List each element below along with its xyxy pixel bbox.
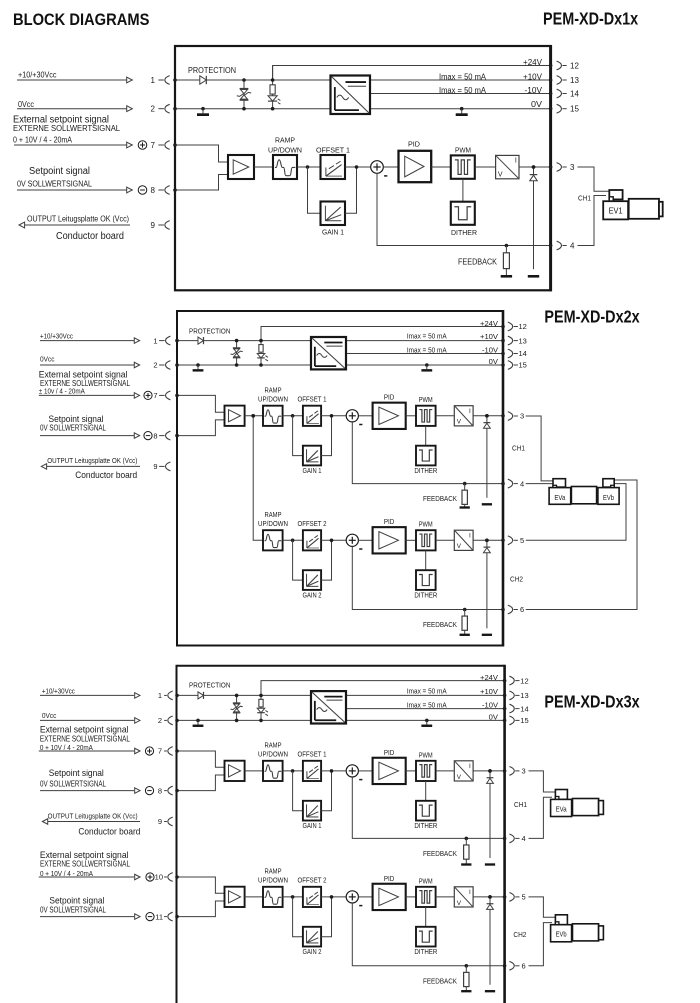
label +10V [480, 332, 498, 341]
offset block OFFSET 2 [303, 887, 321, 907]
label GAIN 1 [303, 468, 322, 475]
label CH1 [512, 444, 525, 453]
ground at 0Vcc rail [197, 107, 209, 115]
label OFFSET 1 [316, 145, 350, 154]
terminal 2 [153, 361, 170, 370]
label -10V [482, 345, 498, 354]
svg-text:3: 3 [522, 767, 526, 776]
svg-text:GAIN 2: GAIN 2 [303, 949, 322, 956]
wire setpoint+ routing [175, 394, 224, 413]
svg-text:OFFSET 1: OFFSET 1 [298, 752, 327, 759]
feedback resistor 1 [461, 837, 471, 865]
wire gain bypass down 2 [293, 897, 303, 937]
terminal 3 [508, 412, 524, 421]
label RAMP UP/DOWN 2 [258, 869, 288, 885]
terminal 9 [158, 817, 173, 826]
label OFFSET 1 [298, 397, 327, 404]
DC/DC converter U1 [311, 337, 346, 369]
svg-text:GAIN 2: GAIN 2 [303, 593, 322, 600]
svg-text:I: I [469, 889, 471, 896]
terminal 14 [509, 704, 528, 713]
protection diode D1 [200, 76, 207, 84]
svg-text:9: 9 [151, 221, 156, 230]
svg-text:DITHER: DITHER [414, 593, 437, 600]
ramp generator 2 [263, 887, 283, 907]
wire -10V rail [370, 92, 552, 96]
label OUTPUT Leitugsplatte OK (Vcc) [48, 812, 138, 821]
wire EVb pin lower [526, 484, 626, 541]
svg-text:OUTPUT Leitugsplatte OK (Vcc): OUTPUT Leitugsplatte OK (Vcc) [48, 812, 138, 821]
terminal 1 [158, 691, 173, 700]
ramp generator 1 [263, 761, 283, 781]
wire PWM to dither 2 [425, 550, 427, 570]
label CH2 [513, 930, 526, 939]
svg-text:1: 1 [158, 691, 162, 700]
ramp generator 1 [263, 406, 283, 426]
summing junction 2 [346, 534, 362, 549]
label Imax +10V [407, 332, 447, 341]
wire ramp to offset 2 [283, 539, 303, 543]
wire Vcc rail line1 [175, 339, 505, 343]
svg-text:UP/DOWN: UP/DOWN [268, 145, 302, 154]
ground at 0Vcc rail [193, 363, 204, 370]
svg-text:RAMP: RAMP [265, 512, 282, 519]
wire +10/+30Vcc with arrow [40, 693, 140, 699]
terminal 7 plus [144, 391, 171, 400]
svg-text:UP/DOWN: UP/DOWN [258, 397, 288, 404]
svg-text:PID: PID [384, 395, 395, 402]
svg-text:0Vcc: 0Vcc [18, 100, 34, 109]
terminal 15 [557, 104, 580, 113]
label PWM 1 [419, 397, 433, 404]
label FEEDBACK 1 [423, 494, 457, 503]
svg-text:6: 6 [522, 962, 526, 971]
svg-text:0V: 0V [489, 357, 499, 366]
wire setpoint- with arrow [17, 187, 132, 193]
label PID 2 [384, 519, 395, 526]
wire setpoint+ routing [173, 143, 228, 162]
wire -10V rail [346, 352, 505, 356]
svg-text:RAMP: RAMP [265, 388, 282, 395]
label 0 + 10V / 4 - 20mA [13, 136, 73, 145]
wire CH1 bracket lower [578, 196, 607, 246]
PWM stage 2 [416, 887, 436, 907]
svg-text:4: 4 [522, 834, 526, 843]
svg-text:EVa: EVa [556, 806, 567, 813]
dither oscillator 1 [416, 446, 436, 466]
wire PID to PWM 1 [406, 415, 416, 417]
valve center block [571, 487, 596, 504]
terminal 9 [153, 462, 170, 471]
net 0Vcc input label [18, 100, 34, 109]
title PEM-XD-Dx3x [544, 691, 639, 711]
feedback resistor 2 [460, 608, 470, 635]
label 0V [531, 100, 543, 109]
svg-text:14: 14 [519, 349, 527, 358]
label setpoint signal ch2 [49, 894, 104, 905]
PID controller 1 [373, 403, 406, 429]
summing junction S1 [371, 161, 388, 176]
terminal 5 [508, 536, 524, 545]
wire CH2 bracket lower [529, 923, 553, 966]
terminal 8 minus [144, 431, 171, 440]
terminal 3 [557, 163, 575, 172]
feedback resistor R1 [501, 244, 512, 277]
svg-text:PID: PID [384, 876, 395, 883]
svg-text:PWM: PWM [419, 878, 433, 885]
label +/- 10v / 4 - 20mA [39, 387, 85, 396]
wire setpoint- routing [175, 901, 224, 918]
svg-text:UP/DOWN: UP/DOWN [258, 752, 288, 759]
svg-text:8: 8 [158, 786, 162, 795]
wire -10V rail [346, 707, 506, 711]
ramp generator 2 [263, 530, 283, 550]
wire gain bypass up [345, 167, 357, 213]
svg-text:BLOCK DIAGRAMS: BLOCK DIAGRAMS [13, 11, 150, 29]
label +24V [480, 319, 498, 328]
label 0V sollwertsignal [17, 179, 92, 189]
svg-text:13: 13 [519, 336, 527, 345]
solenoid valve EVa [551, 790, 604, 817]
terminal 4 [508, 479, 524, 488]
wire offset to summer 1 [321, 769, 346, 773]
TVS suppressor Z1 [237, 78, 251, 110]
svg-text:EVb: EVb [603, 495, 614, 502]
terminal 13 [509, 691, 528, 700]
wire PID to PWM 1 [406, 770, 416, 772]
wire gain bypass down 1 [293, 771, 303, 811]
wire amp to ramp [245, 414, 263, 418]
offset block OFFSET 1 [303, 406, 321, 426]
label external setpoint signal ch1 [40, 724, 129, 735]
label OFFSET 1 [298, 752, 327, 759]
input amplifier A2 [225, 887, 245, 907]
wire setpoint- ch1 with arrow [40, 788, 140, 794]
wire +10/+30Vcc with arrow [40, 338, 140, 344]
svg-text:GAIN 1: GAIN 1 [303, 468, 322, 475]
label PID 1 [384, 395, 395, 402]
wire setpoint- routing [175, 420, 224, 438]
label Imax +10V [407, 686, 447, 695]
wire offset to summer 2 [321, 539, 346, 543]
wire summer to PID 1 [358, 770, 372, 772]
wire 0V rail line2 [175, 363, 505, 367]
DC/DC converter U1 [331, 76, 371, 115]
terminal 12 [557, 61, 580, 70]
label external setpoint signal [13, 114, 109, 125]
svg-text:+10V: +10V [523, 72, 543, 81]
wire V/I to output terminal 2 [473, 539, 505, 543]
label setpoint signal [49, 413, 104, 424]
label externe sollwertsignal [13, 123, 120, 133]
svg-text:0V SOLLWERTSIGNAL: 0V SOLLWERTSIGNAL [40, 780, 107, 789]
svg-text:Imax = 50 mA: Imax = 50 mA [439, 86, 487, 95]
label conductor board [78, 826, 140, 837]
wire gain bypass up 1 [321, 771, 331, 811]
label FEEDBACK 1 [423, 849, 457, 858]
label Imax -10V [407, 700, 447, 709]
V/I output stage 2 [454, 530, 473, 550]
label GAIN 1 [303, 823, 322, 830]
wire PWM to V/I 1 [436, 415, 455, 417]
svg-text:1: 1 [151, 76, 156, 85]
svg-text:I: I [469, 408, 471, 415]
flyback diode VD1 [528, 165, 539, 276]
label OFFSET 2 [298, 878, 327, 885]
wire ramp to offset 2 [283, 895, 303, 899]
svg-text:EXTERNE SOLLWERTSIGNAL: EXTERNE SOLLWERTSIGNAL [40, 859, 131, 868]
wire 0Vcc with arrow [17, 106, 132, 112]
wire V/I to output terminal 1 [473, 414, 505, 418]
svg-text:I: I [469, 532, 471, 539]
wire feedback return 1 [352, 422, 505, 486]
summing junction 1 [346, 765, 362, 780]
label external setpoint signal ch2 [40, 849, 129, 860]
svg-text:0V: 0V [489, 713, 499, 722]
block PEM-XD-Dx1x enclosure [175, 45, 551, 291]
ground at 0V rail [421, 363, 432, 370]
svg-text:Setpoint signal: Setpoint signal [49, 894, 104, 905]
svg-text:OFFSET 2: OFFSET 2 [298, 521, 327, 528]
terminal 9 [151, 221, 170, 230]
svg-text:Imax = 50 mA: Imax = 50 mA [407, 332, 447, 341]
svg-text:OFFSET 2: OFFSET 2 [298, 878, 327, 885]
wire CH2 bracket upper [529, 897, 556, 917]
terminal 15 [508, 361, 527, 370]
label DITHER 2 [414, 949, 437, 956]
label conductor board [56, 231, 124, 242]
net +10/+30Vcc input label [42, 686, 75, 695]
svg-text:OFFSET 1: OFFSET 1 [316, 145, 350, 154]
TVS suppressor Z1 [230, 339, 242, 367]
summing junction 2 [346, 891, 362, 906]
svg-text:EV1: EV1 [609, 206, 623, 215]
V/I output stage 1 [454, 406, 473, 426]
wire PWM to dither 1 [425, 426, 427, 446]
terminal 14 [508, 349, 527, 358]
svg-text:3: 3 [570, 163, 575, 172]
block PEM-XD-Dx2x enclosure [177, 310, 503, 647]
svg-text:FEEDBACK: FEEDBACK [423, 976, 457, 985]
label RAMP UP/DOWN 2 [258, 512, 288, 528]
page header BLOCK DIAGRAMS [13, 11, 150, 29]
svg-text:-10V: -10V [525, 86, 543, 95]
svg-text:Setpoint signal: Setpoint signal [29, 166, 90, 177]
terminal 12 [509, 676, 528, 685]
label CH2 [510, 574, 523, 583]
svg-text:0V SOLLWERTSIGNAL: 0V SOLLWERTSIGNAL [17, 179, 92, 189]
net +10/+30Vcc input label [40, 332, 73, 341]
svg-text:PWM: PWM [419, 522, 433, 529]
wire gain bypass up 2 [321, 540, 331, 580]
label OUTPUT Leitugsplatte OK (Vcc) [27, 214, 129, 224]
svg-text:Setpoint signal: Setpoint signal [49, 413, 104, 424]
wire ramp to offset 1 [283, 414, 303, 418]
label FEEDBACK 2 [423, 620, 457, 629]
offset block OFFSET 1 [321, 155, 346, 179]
flyback diode 1 [485, 769, 495, 864]
wire offset to summer 1 [321, 414, 346, 418]
svg-text:6: 6 [520, 605, 524, 614]
svg-text:GAIN 1: GAIN 1 [303, 823, 322, 830]
wire EVb pin upper [526, 480, 637, 610]
wire summer to PID 1 [358, 415, 372, 417]
svg-text:PWM: PWM [419, 397, 433, 404]
wire 0V rail line2 [175, 719, 506, 723]
svg-text:12: 12 [520, 676, 528, 685]
svg-text:CH1: CH1 [512, 444, 525, 453]
wire gain bypass up 1 [321, 416, 331, 456]
wire PID to PWM 2 [406, 896, 416, 898]
label Imax +10V [439, 72, 487, 81]
svg-text:RAMP: RAMP [265, 743, 282, 750]
wire feedback return 1 [352, 777, 506, 840]
wire PWM to dither 2 [425, 907, 427, 927]
label RAMP UP/DOWN [268, 136, 302, 155]
svg-text:DITHER: DITHER [414, 823, 437, 830]
wire feedback return 2 [352, 546, 505, 611]
label PID 1 [384, 750, 395, 757]
wire CH1 bracket [526, 416, 553, 481]
wire PWM to V/I 2 [436, 896, 455, 898]
V/I output stage 2 [454, 887, 473, 907]
svg-text:CH1: CH1 [578, 193, 591, 202]
wire setpoint+ with arrow [39, 393, 140, 399]
label PROTECTION [189, 326, 230, 335]
wire setpoint+ routing [175, 749, 224, 767]
terminal 12 [508, 322, 527, 331]
wire setpoint+ ch1 with arrow [39, 748, 140, 754]
svg-text:15: 15 [519, 361, 527, 370]
label RAMP UP/DOWN 1 [258, 388, 288, 404]
label RAMP UP/DOWN 1 [258, 743, 288, 759]
wire setpoint+ routing [175, 875, 224, 893]
PWM stage 1 [416, 406, 436, 426]
label 0 + 10V / 4 - 20mA ch1 [40, 743, 93, 752]
label conductor board [75, 469, 137, 480]
wire +10/+30Vcc with arrow [17, 77, 132, 83]
svg-text:10: 10 [155, 873, 163, 882]
svg-text:OUTPUT Leitugsplatte OK (Vcc): OUTPUT Leitugsplatte OK (Vcc) [27, 214, 129, 224]
svg-text:4: 4 [520, 479, 524, 488]
svg-text:7: 7 [153, 391, 157, 400]
svg-text:0 + 10V / 4 - 20mA: 0 + 10V / 4 - 20mA [13, 136, 73, 145]
svg-text:External setpoint signal: External setpoint signal [39, 368, 128, 379]
wire CH1 bracket upper [529, 771, 556, 792]
svg-text:FEEDBACK: FEEDBACK [423, 620, 457, 629]
svg-text:8: 8 [151, 186, 156, 195]
svg-text:I: I [469, 763, 471, 770]
svg-text:FEEDBACK: FEEDBACK [458, 257, 498, 266]
label PWM 2 [419, 522, 433, 529]
wire setpoint+ with arrow [14, 142, 132, 148]
svg-text:+24V: +24V [480, 319, 498, 328]
svg-text:+24V: +24V [480, 673, 498, 682]
svg-text:CH2: CH2 [510, 574, 523, 583]
label DITHER 1 [414, 823, 437, 830]
wire amp to ramp [245, 896, 263, 898]
svg-text:V: V [457, 774, 462, 781]
svg-text:11: 11 [155, 912, 163, 921]
wire gain bypass down 2 [293, 540, 303, 580]
ground at 0V rail [456, 107, 468, 115]
wire amp to ramp [254, 166, 273, 168]
svg-text:PEM-XD-Dx2x: PEM-XD-Dx2x [544, 307, 639, 327]
svg-text:Conductor board: Conductor board [78, 826, 140, 837]
svg-text:External setpoint signal: External setpoint signal [40, 849, 129, 860]
TVS suppressor Z1 [230, 694, 242, 723]
svg-text:I: I [515, 158, 517, 165]
dither oscillator 1 [416, 801, 436, 821]
wire gain bypass down 1 [293, 416, 303, 456]
svg-text:Imax = 50 mA: Imax = 50 mA [407, 686, 447, 695]
svg-text:DITHER: DITHER [414, 468, 437, 475]
svg-text:EVa: EVa [554, 495, 565, 502]
terminal 8 minus [138, 186, 170, 195]
dither oscillator 2 [416, 927, 436, 947]
svg-text:1: 1 [153, 336, 157, 345]
svg-text:PEM-XD-Dx1x: PEM-XD-Dx1x [543, 9, 638, 29]
label 0V sollwertsignal ch1 [40, 780, 107, 789]
wire V/I to output terminal 2 [473, 895, 506, 899]
label GAIN 1 [322, 228, 344, 237]
svg-text:V: V [457, 543, 462, 550]
svg-text:+10/+30Vcc: +10/+30Vcc [42, 686, 75, 695]
net 0Vcc input label [42, 711, 57, 720]
wire summer to PID 2 [358, 539, 372, 541]
gain block GAIN 1 [303, 801, 321, 821]
svg-text:9: 9 [153, 462, 157, 471]
svg-text:PWM: PWM [455, 145, 471, 154]
svg-text:RAMP: RAMP [265, 869, 282, 876]
svg-text:0V SOLLWERTSIGNAL: 0V SOLLWERTSIGNAL [40, 905, 107, 914]
input amplifier A1 [225, 406, 245, 426]
ramp generator RAMP UP/DOWN [273, 155, 297, 179]
svg-text:5: 5 [522, 893, 526, 902]
solenoid valve EV1 [603, 190, 663, 219]
wire 0Vcc with arrow [40, 362, 140, 368]
V/I output stage [496, 155, 519, 178]
LED indicator with resistor [257, 681, 268, 723]
wire V/I to output terminal 1 [473, 769, 506, 773]
label setpoint signal ch1 [49, 767, 104, 778]
wire +24V rail [261, 679, 506, 696]
svg-text:UP/DOWN: UP/DOWN [258, 878, 288, 885]
wire PID to PWM [431, 166, 451, 168]
svg-text:Imax = 50 mA: Imax = 50 mA [407, 345, 447, 354]
wire gain bypass down [308, 167, 321, 213]
svg-text:12: 12 [519, 322, 527, 331]
terminal 4 [557, 241, 575, 250]
wire feedback return 2 [352, 903, 506, 968]
label DITHER 1 [414, 468, 437, 475]
wire conductor-ok output with arrow [19, 222, 130, 228]
svg-text:External setpoint signal: External setpoint signal [40, 724, 129, 735]
wire conductor-ok output with arrow [41, 464, 140, 470]
svg-text:V: V [498, 172, 503, 179]
flyback diode 2 [482, 539, 492, 635]
svg-text:+10/+30Vcc: +10/+30Vcc [18, 71, 57, 80]
svg-text:7: 7 [151, 141, 156, 150]
wire summer to PID 2 [358, 896, 372, 898]
wire +24V rail [261, 325, 505, 341]
label CH1 [514, 800, 527, 809]
svg-text:-10V: -10V [482, 700, 498, 709]
label PWM 2 [419, 878, 433, 885]
svg-text:PWM: PWM [419, 752, 433, 759]
svg-text:0V: 0V [531, 100, 543, 109]
PID controller 2 [373, 527, 406, 553]
